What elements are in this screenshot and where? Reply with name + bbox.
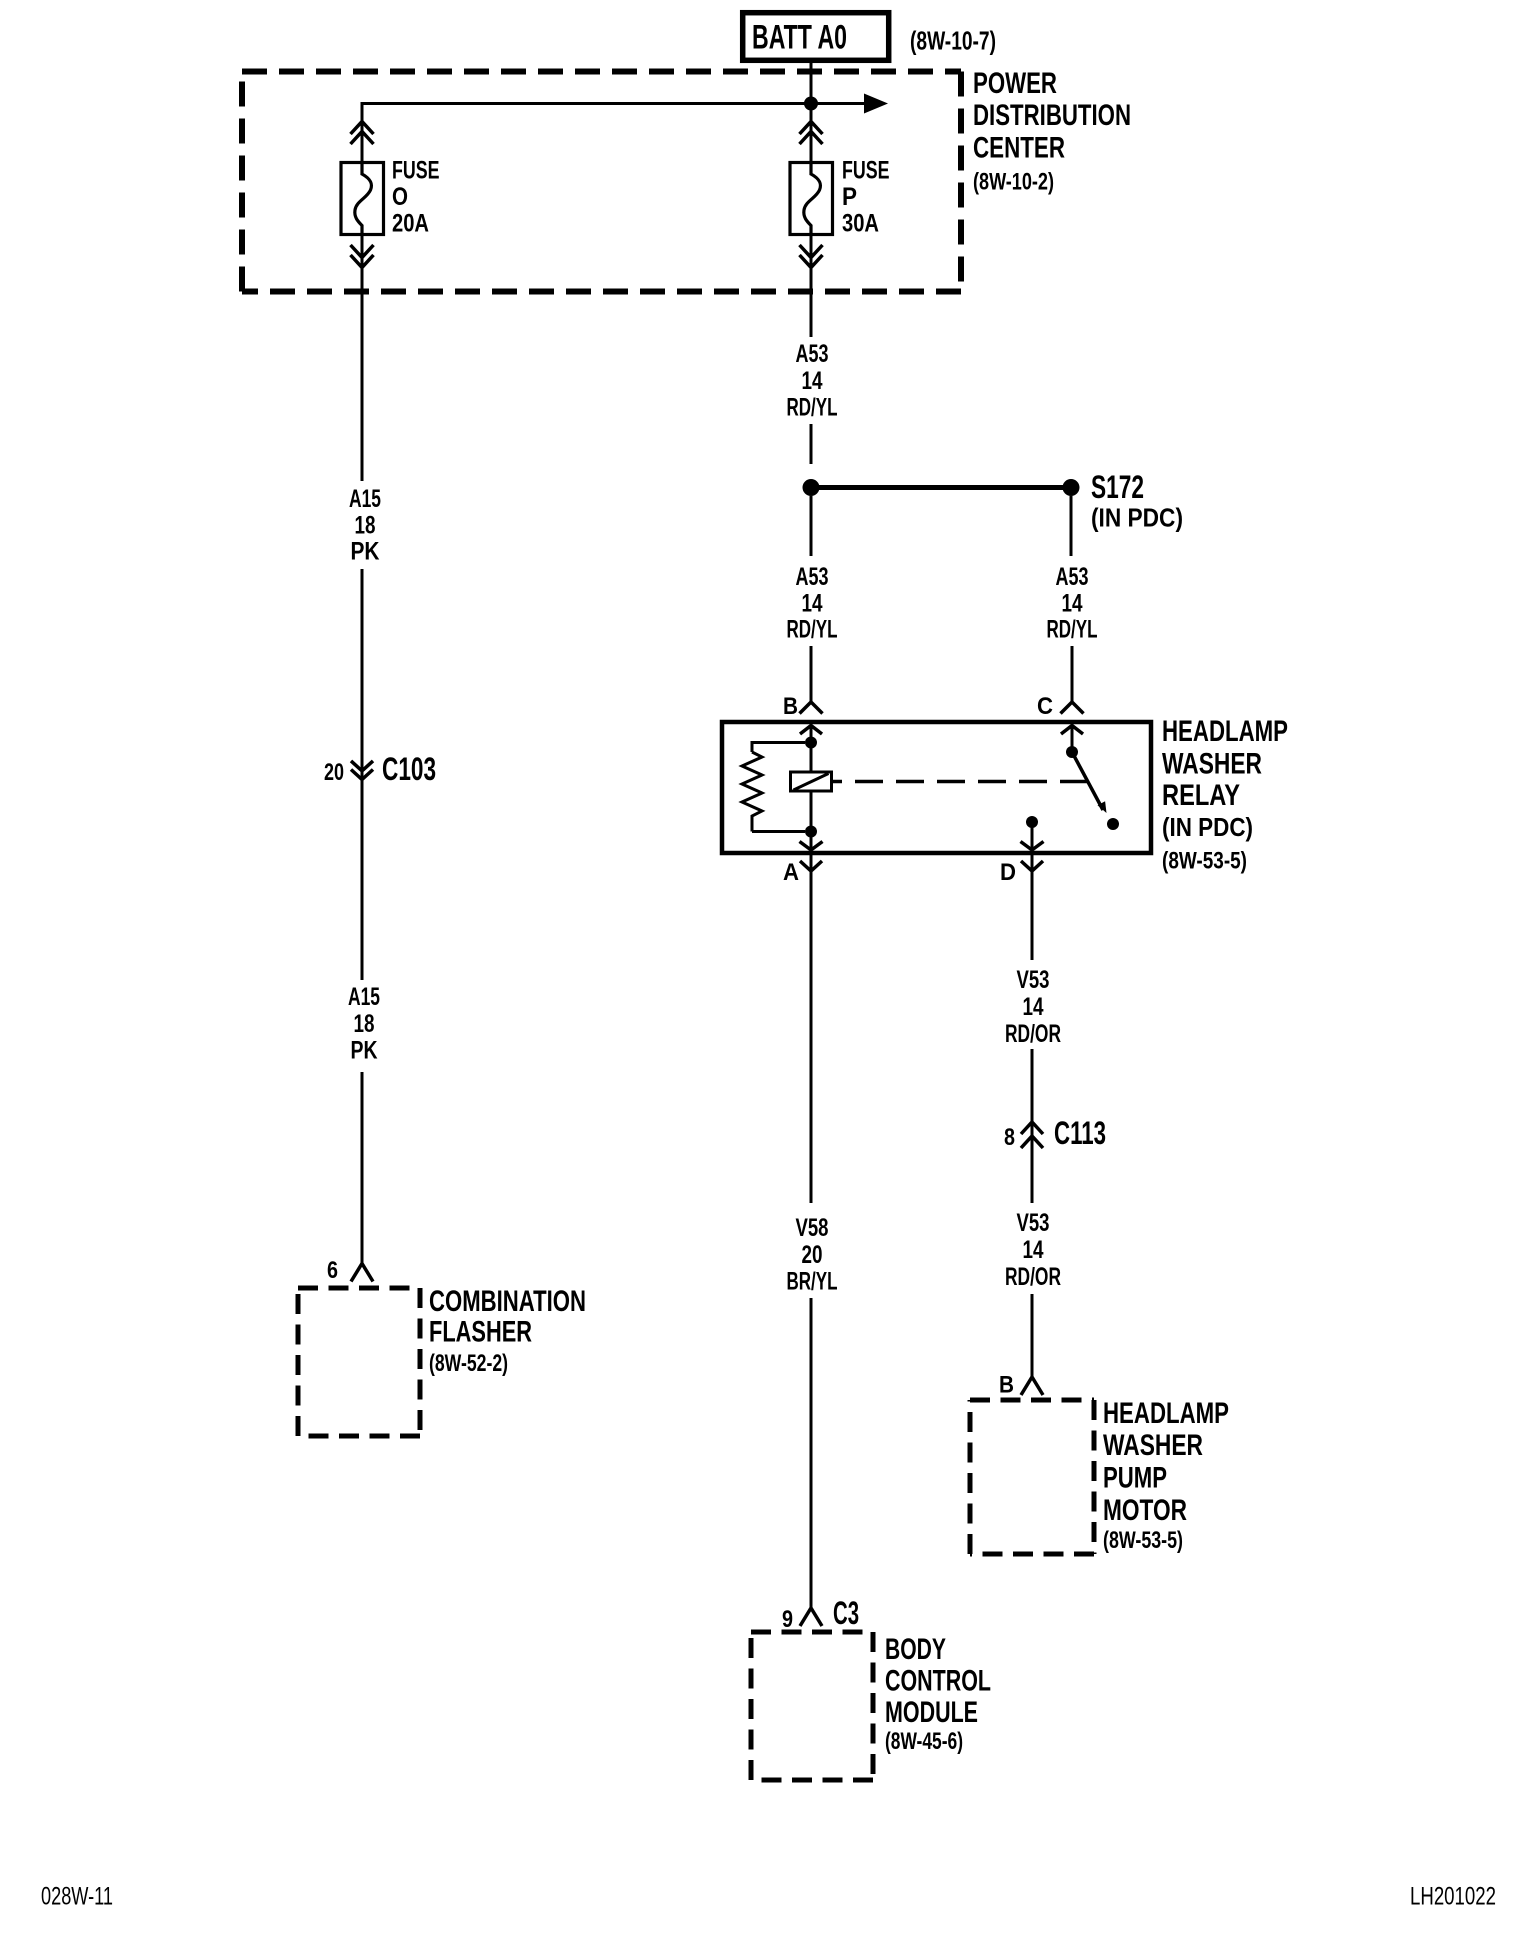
- svg-text:HEADLAMP: HEADLAMP: [1103, 1397, 1229, 1430]
- svg-text:(8W-45-6): (8W-45-6): [885, 1728, 963, 1755]
- svg-text:A53: A53: [796, 340, 829, 368]
- svg-text:V53: V53: [1017, 1209, 1050, 1237]
- wire relay actuation dashed: [832, 780, 1088, 784]
- svg-text:FUSE: FUSE: [842, 157, 890, 185]
- svg-text:(8W-52-2): (8W-52-2): [429, 1350, 508, 1377]
- svg-text:O: O: [392, 183, 408, 211]
- svg-text:14: 14: [1023, 1236, 1044, 1264]
- wire splice S172 horizontal: [811, 485, 1071, 490]
- label wire A53 14 RD/YL (right): [1047, 563, 1098, 644]
- svg-text:14: 14: [802, 590, 823, 618]
- svg-text:WASHER: WASHER: [1162, 748, 1262, 781]
- svg-text:028W-11: 028W-11: [41, 1883, 113, 1911]
- svg-text:18: 18: [354, 1010, 375, 1038]
- svg-text:MOTOR: MOTOR: [1103, 1494, 1187, 1527]
- svg-text:A53: A53: [1056, 563, 1089, 591]
- combination flasher dashed box: [298, 1288, 420, 1436]
- connector chevrons above fuse O: [351, 122, 374, 145]
- wire PK to combination flasher: [361, 1072, 364, 1263]
- svg-text:14: 14: [1023, 993, 1044, 1021]
- svg-text:C: C: [1037, 693, 1053, 720]
- svg-text:PK: PK: [351, 538, 380, 566]
- svg-text:HEADLAMP: HEADLAMP: [1162, 715, 1288, 748]
- connector C113 pin 8: [1004, 1115, 1106, 1151]
- svg-text:PUMP: PUMP: [1103, 1462, 1167, 1495]
- label BODY CONTROL MODULE: [885, 1633, 991, 1755]
- wire A15 to connector C103: [361, 569, 364, 980]
- svg-text:A: A: [783, 859, 799, 886]
- svg-text:(8W-53-5): (8W-53-5): [1162, 848, 1247, 875]
- wire pin A to label V58: [810, 871, 813, 1203]
- pin B connector at relay: [783, 693, 823, 720]
- switch armature with arrow: [1072, 752, 1107, 813]
- svg-text:RD/YL: RD/YL: [787, 394, 838, 422]
- label wire V53 14 RD/OR (upper): [1005, 966, 1061, 1048]
- pin D terminal arrow inside relay: [1021, 822, 1044, 850]
- connector chevrons below fuse O: [351, 245, 374, 268]
- svg-text:POWER: POWER: [973, 67, 1057, 100]
- headlamp washer pump motor dashed box: [970, 1400, 1094, 1554]
- svg-text:(8W-53-5): (8W-53-5): [1103, 1527, 1183, 1554]
- node relay coil top dot: [805, 737, 817, 749]
- label HEADLAMP WASHER PUMP MOTOR: [1103, 1397, 1229, 1554]
- relay U1 headlamp washer relay box: [722, 722, 1151, 853]
- svg-text:9: 9: [782, 1606, 793, 1633]
- wire pin D to label V53: [1031, 871, 1034, 960]
- svg-text:RELAY: RELAY: [1162, 779, 1240, 812]
- relay coil K1: [791, 743, 832, 832]
- svg-text:V53: V53: [1017, 966, 1050, 994]
- wire V53 to connector C113: [1031, 1049, 1034, 1150]
- label POWER DISTRIBUTION CENTER: [973, 67, 1131, 196]
- node switch contact dot: [1107, 818, 1119, 830]
- label S172 (IN PDC): [1091, 469, 1183, 533]
- wire RD/YL to relay pin B: [810, 646, 813, 703]
- svg-text:CONTROL: CONTROL: [885, 1665, 991, 1698]
- connector chevrons above fuse P: [800, 122, 823, 145]
- fuse P 30A: [790, 157, 890, 238]
- svg-text:6: 6: [327, 1257, 338, 1284]
- node splice junction dot left: [803, 479, 820, 496]
- svg-text:RD/OR: RD/OR: [1005, 1263, 1061, 1291]
- svg-text:A53: A53: [796, 563, 829, 591]
- label wire A15 18 PK (lower): [348, 983, 380, 1065]
- svg-text:RD/YL: RD/YL: [787, 616, 838, 644]
- svg-text:20A: 20A: [392, 210, 429, 238]
- power distribution center dashed box: [242, 72, 961, 292]
- svg-text:18: 18: [355, 512, 376, 540]
- pin C connector at relay: [1037, 693, 1084, 720]
- svg-text:30A: 30A: [842, 210, 879, 238]
- svg-text:S172: S172: [1091, 469, 1144, 505]
- node BATT A0 feed box: [743, 13, 889, 61]
- pin B terminal arrow inside relay: [800, 726, 822, 741]
- svg-text:C3: C3: [833, 1595, 859, 1631]
- label wire V58 20 BR/YL: [787, 1214, 838, 1296]
- connector chevrons below fuse P: [800, 245, 823, 268]
- label COMBINATION FLASHER: [429, 1285, 586, 1377]
- svg-text:C103: C103: [382, 751, 436, 787]
- label wire A15 18 PK (upper): [349, 485, 381, 566]
- pin B connector at pump motor: [999, 1372, 1043, 1399]
- svg-text:B: B: [999, 1372, 1014, 1399]
- wire splice to label A53 center: [810, 496, 813, 556]
- svg-text:DISTRIBUTION: DISTRIBUTION: [973, 99, 1131, 132]
- pin A connector below relay: [783, 853, 822, 886]
- pin 6 connector at combination flasher: [327, 1257, 373, 1284]
- node splice S172 dot: [1063, 479, 1080, 496]
- label wire A53 14 RD/YL (upper): [787, 340, 838, 422]
- svg-text:D: D: [1000, 859, 1016, 886]
- svg-text:MODULE: MODULE: [885, 1696, 978, 1729]
- node junction dot at fuse P feed: [804, 97, 818, 111]
- pin C terminal arrow inside relay: [1061, 726, 1083, 749]
- wire RD/OR to pump motor: [1031, 1294, 1034, 1377]
- node relay coil bottom dot: [805, 826, 817, 838]
- svg-text:A15: A15: [349, 485, 381, 513]
- svg-text:20: 20: [802, 1241, 823, 1269]
- svg-text:(8W-10-7): (8W-10-7): [910, 26, 996, 56]
- svg-text:(IN PDC): (IN PDC): [1091, 503, 1183, 533]
- svg-text:(8W-10-2): (8W-10-2): [973, 169, 1054, 196]
- svg-text:14: 14: [802, 367, 823, 395]
- svg-text:C113: C113: [1054, 1115, 1106, 1151]
- wire fuse P to label A53: [810, 234, 813, 337]
- svg-text:RD/YL: RD/YL: [1047, 616, 1098, 644]
- wire RD/YL to relay pin C: [1071, 646, 1074, 703]
- node switch common dot: [1066, 746, 1078, 758]
- svg-text:P: P: [842, 183, 857, 211]
- svg-text:FUSE: FUSE: [392, 157, 440, 185]
- svg-text:(IN PDC): (IN PDC): [1162, 812, 1253, 842]
- svg-text:PK: PK: [351, 1037, 378, 1065]
- svg-text:BATT A0: BATT A0: [752, 19, 847, 57]
- wire C113 to label V53 lower: [1031, 1150, 1034, 1203]
- wire BR/YL to body control module: [810, 1298, 813, 1608]
- svg-text:RD/OR: RD/OR: [1005, 1020, 1061, 1048]
- svg-text:FLASHER: FLASHER: [429, 1316, 532, 1349]
- svg-text:8: 8: [1004, 1124, 1015, 1151]
- pin D connector below relay: [1000, 853, 1043, 886]
- connector C3 pin 9: [782, 1595, 859, 1633]
- svg-text:LH201022: LH201022: [1410, 1883, 1496, 1911]
- connector C103: [324, 751, 436, 787]
- resistor relay shunt: [742, 741, 805, 832]
- svg-text:V58: V58: [796, 1214, 829, 1242]
- wire splice to label A53 right: [1070, 496, 1073, 556]
- label wire A53 14 RD/YL (center lower): [787, 563, 838, 644]
- svg-text:BODY: BODY: [885, 1633, 946, 1666]
- svg-text:14: 14: [1062, 590, 1083, 618]
- svg-text:CENTER: CENTER: [973, 132, 1065, 165]
- node pin D dot: [1026, 816, 1038, 828]
- wire fuse O to label A15: [361, 234, 364, 481]
- svg-text:20: 20: [324, 759, 344, 786]
- wire horizontal feed to fuse O with arrow: [362, 94, 888, 164]
- svg-text:BR/YL: BR/YL: [787, 1268, 838, 1296]
- wire A53 to splice S172: [810, 424, 813, 464]
- svg-text:B: B: [783, 693, 798, 720]
- body control module dashed box: [751, 1632, 873, 1780]
- svg-text:A15: A15: [348, 983, 380, 1011]
- label wire V53 14 RD/OR (lower): [1005, 1209, 1061, 1291]
- wire BATT A0 to fuse P: [810, 62, 813, 163]
- pin A terminal arrow inside relay: [800, 832, 823, 851]
- label HEADLAMP WASHER RELAY (IN PDC): [1162, 715, 1288, 875]
- fuse O 20A: [341, 157, 440, 238]
- svg-text:WASHER: WASHER: [1103, 1429, 1203, 1462]
- svg-text:COMBINATION: COMBINATION: [429, 1285, 586, 1318]
